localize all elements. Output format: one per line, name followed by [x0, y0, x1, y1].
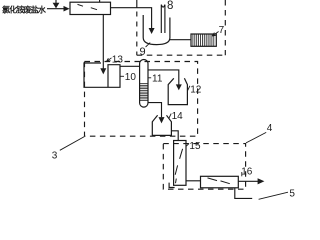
arrow into tank 10 [100, 68, 106, 74]
svg-text:7: 7 [219, 25, 225, 36]
wire column 11 top to vessel 12 [148, 70, 179, 85]
tank 10 (two-compartment) [84, 63, 120, 87]
arrow down onto feed line [53, 3, 60, 9]
svg-text:8: 8 [167, 0, 173, 12]
svg-text:15: 15 [189, 141, 201, 152]
diagonal dashes inside filter 16 [208, 178, 230, 184]
svg-text:3: 3 [52, 151, 58, 162]
svg-text:4: 4 [267, 123, 273, 134]
svg-text:12: 12 [190, 85, 202, 96]
label 8 [167, 0, 173, 12]
wire from top joining outlet [136, 0, 138, 8]
vessel 14 (beaker) [152, 115, 171, 135]
wire evaporator down to tank 10 [102, 15, 104, 69]
label 14 [169, 114, 171, 118]
vessel 12 (beaker) [168, 78, 187, 104]
label 9 [146, 43, 151, 47]
wire filter 16 bottom drain [235, 188, 252, 199]
label 16 [241, 172, 243, 176]
wire column 15 to filter 16 [186, 180, 201, 182]
arrow into vessel 12 [176, 84, 182, 90]
wire feed horizontal [47, 8, 64, 10]
arrow into vessel 14 [159, 117, 165, 123]
label 5 [259, 192, 288, 199]
arrow product out [258, 178, 265, 184]
wire column 11 bottom to vessel 14 [148, 103, 162, 118]
feed label 氯化铵废盐水 [2, 4, 47, 14]
svg-text:14: 14 [172, 111, 184, 122]
wire column 15 drain [169, 183, 175, 188]
label 7 leader arrow [212, 32, 218, 37]
wire vessel 9 to heater 7 [170, 39, 191, 41]
wire feed drop from top [55, 0, 57, 3]
wire evaporator to vessel 9 [111, 8, 152, 29]
label 11 [148, 77, 151, 79]
vent tick on evaporator top [99, 0, 101, 2]
vessel 9 (round-bottom absorber) [143, 15, 170, 45]
svg-text:16: 16 [241, 166, 253, 177]
dip tube 8 [161, 5, 165, 33]
diagonal dashes inside column 15 [175, 149, 182, 183]
dashed box 3 (middle system) [85, 62, 198, 137]
dashed box 2 (top-right) [136, 12, 138, 56]
arrow into vessel 9 [149, 28, 155, 34]
label 13 leader [107, 58, 112, 62]
heater 7 (hatched exchanger) [191, 34, 216, 46]
svg-text:13: 13 [112, 54, 124, 65]
label 3 [60, 137, 85, 151]
label 15 [186, 144, 189, 147]
svg-text:11: 11 [152, 73, 163, 84]
column 15 [174, 141, 186, 186]
wire product out [238, 180, 258, 182]
svg-text:9: 9 [140, 46, 146, 58]
wire tank 10 to column 11 [120, 65, 140, 67]
label 4 [246, 132, 266, 143]
svg-text:10: 10 [125, 72, 137, 83]
column 11 (packed column) [140, 60, 148, 108]
evaporator vessel (top rect) [70, 2, 111, 14]
label 12 [188, 86, 190, 91]
svg-text:5: 5 [289, 188, 295, 199]
dashed box 4 (bottom-right) [163, 144, 245, 190]
svg-text:氯化铵废盐水: 氯化铵废盐水 [2, 4, 47, 14]
arrow into evaporator [64, 6, 70, 12]
filter 16 (horizontal drum) [201, 176, 239, 188]
wire vessel 14 to column 15 [171, 131, 178, 141]
diagonal dashes inside evaporator [78, 4, 98, 9]
label 10 [120, 75, 124, 77]
